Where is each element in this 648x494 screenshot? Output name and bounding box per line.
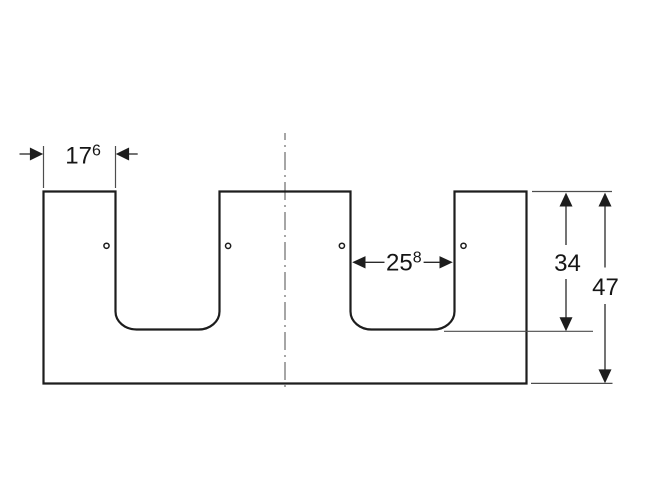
dimension 17.6: right arrow — [116, 148, 138, 161]
dimension 34: vertical line with arrows — [560, 193, 573, 332]
hole 2 (right of cutout 1) — [226, 243, 231, 248]
countertop outline with two U-shaped cutouts — [44, 192, 527, 384]
dimension 34: label — [554, 250, 581, 277]
centerline (vertical dash-dot axis) — [284, 133, 286, 388]
dimension 47: label — [592, 274, 619, 301]
dimension 47: vertical line with arrows — [599, 193, 612, 384]
dimension 17.6: extension lines — [44, 146, 116, 188]
dimension 25.8: left arrow — [352, 256, 384, 268]
extension line bottom right (from bottom edge) — [531, 382, 613, 384]
extension line top right (from top edge) — [532, 191, 612, 193]
dimension 17.6: left arrow — [20, 148, 44, 161]
dimension 17.6: label — [65, 143, 101, 170]
hole 3 (left of cutout 2) — [339, 243, 344, 248]
svg-text:258: 258 — [386, 250, 422, 277]
svg-text:47: 47 — [592, 274, 619, 301]
extension line middle right (from cutout bottom, for 34) — [444, 330, 593, 332]
svg-text:176: 176 — [65, 143, 101, 170]
hole 1 (left of cutout 1) — [104, 243, 109, 248]
svg-text:34: 34 — [554, 250, 581, 277]
dimension 25.8: label — [386, 250, 422, 277]
hole 4 (right of cutout 2) — [461, 243, 466, 248]
dimension 25.8: right arrow — [424, 256, 453, 268]
